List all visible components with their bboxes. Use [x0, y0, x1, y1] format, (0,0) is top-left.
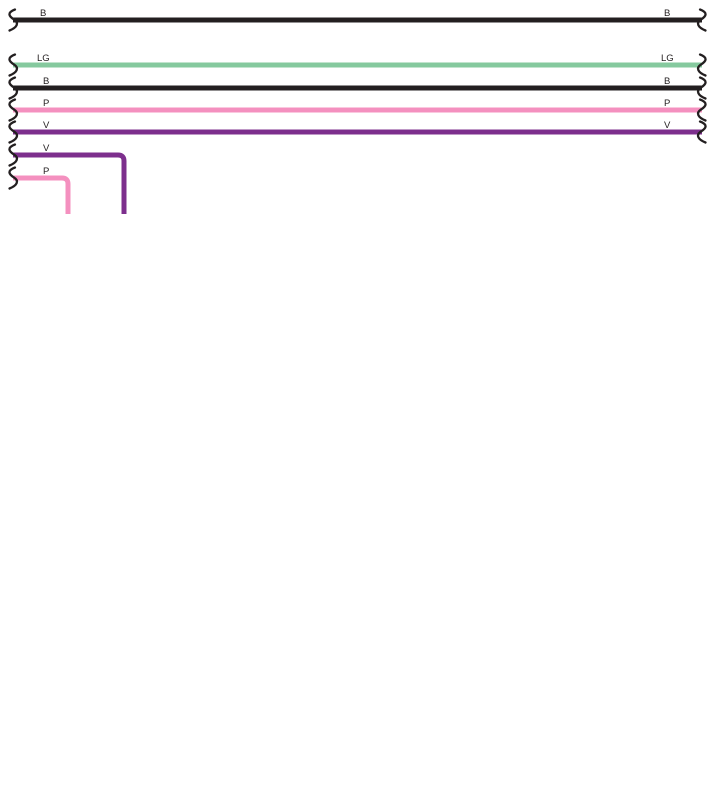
svg-text:B: B	[664, 76, 670, 87]
break symbol right V	[698, 122, 706, 143]
svg-text:V: V	[664, 120, 671, 131]
svg-text:V: V	[43, 120, 50, 131]
wire bus B second	[13, 76, 702, 88]
svg-text:B: B	[664, 8, 670, 19]
wire bus LG	[13, 53, 702, 65]
break symbol left LG	[9, 55, 17, 76]
wire bus P	[13, 98, 702, 110]
svg-text:B: B	[40, 8, 46, 19]
svg-text:P: P	[664, 98, 670, 109]
break symbol left P branch	[9, 168, 17, 189]
break symbol left V branch	[9, 145, 17, 166]
break symbol left V	[9, 122, 17, 143]
svg-text:LG: LG	[37, 53, 50, 64]
wire bus B top	[13, 8, 702, 20]
wire bus V	[13, 120, 702, 132]
break symbol left B top	[9, 10, 17, 31]
wire V to A67 pin 21	[13, 143, 124, 214]
break symbol right B second	[698, 78, 706, 99]
break symbol left P	[9, 100, 17, 121]
svg-text:LG: LG	[661, 53, 674, 64]
svg-text:V: V	[43, 143, 50, 154]
break symbol right P	[698, 100, 706, 121]
break symbol left B second	[9, 78, 17, 99]
svg-text:P: P	[43, 98, 49, 109]
svg-text:P: P	[43, 166, 49, 177]
break symbol right LG	[698, 55, 706, 76]
wire P to A67 pin 10	[13, 166, 68, 214]
svg-text:B: B	[43, 76, 49, 87]
break symbol right B top	[698, 10, 706, 31]
